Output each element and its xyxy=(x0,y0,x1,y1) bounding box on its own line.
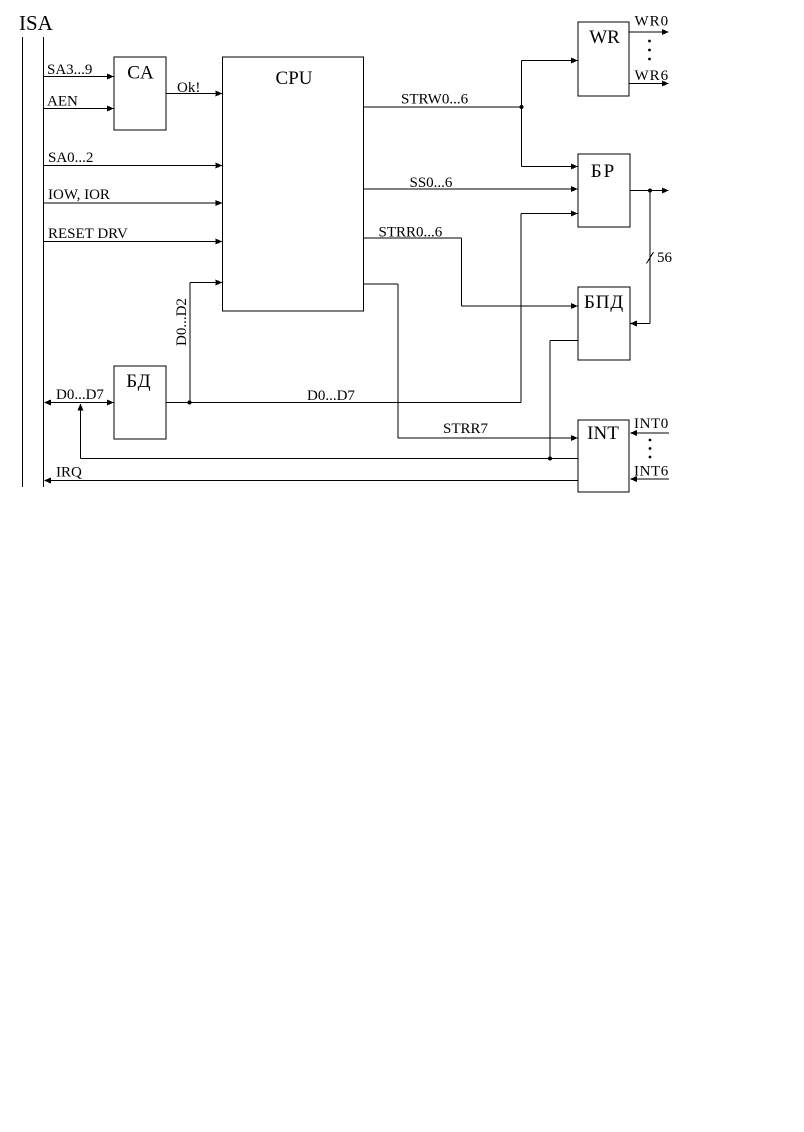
node junction dot on D0...D7 at D0...D2 riser xyxy=(188,401,192,405)
svg-text:SA3...9: SA3...9 xyxy=(47,62,92,78)
svg-text:STRR7: STRR7 xyxy=(443,421,489,437)
svg-text:WR: WR xyxy=(589,27,620,48)
svg-text:Ok!: Ok! xyxy=(177,80,200,96)
svg-text:D0...D2: D0...D2 xyxy=(174,298,190,346)
wire RESET DRV from bus to CPU xyxy=(44,226,223,245)
wire БР output with arrow xyxy=(630,188,669,194)
wire SS0...6 from CPU to БР xyxy=(364,175,579,192)
wire D0...D7 between bus and БД (bidirectional) xyxy=(44,387,114,406)
wire SA0...2 from bus to CPU xyxy=(44,150,223,169)
svg-text:IOW, IOR: IOW, IOR xyxy=(48,187,110,203)
svg-text:D0...D7: D0...D7 xyxy=(56,387,104,403)
svg-text:CPU: CPU xyxy=(276,68,313,89)
svg-text:D0...D7: D0...D7 xyxy=(307,388,355,404)
svg-text:INT0: INT0 xyxy=(634,416,669,432)
wire shared D0...D7 branch to БПД and INT xyxy=(78,341,579,459)
wire INT0 input xyxy=(630,416,669,436)
block БР xyxy=(578,154,630,227)
wire AEN from bus to CA xyxy=(44,94,115,112)
wire D0...D7 from БД to riser at БР xyxy=(166,388,521,404)
block CPU xyxy=(223,57,364,311)
node junction dot on БР output xyxy=(648,189,652,193)
svg-text:INT6: INT6 xyxy=(634,464,669,480)
wire WR6 output xyxy=(629,68,669,87)
block INT xyxy=(578,420,629,492)
wire D0...D7 riser up to БР third input xyxy=(521,211,578,403)
svg-text:IRQ: IRQ xyxy=(56,465,82,481)
wire Ok! from CA to CPU xyxy=(166,80,223,97)
block БПД xyxy=(578,287,630,360)
wire riser from STRW junction to WR and БР xyxy=(522,58,579,170)
wire WR0 output xyxy=(629,14,669,36)
svg-text:56: 56 xyxy=(657,250,673,266)
svg-text:SA0...2: SA0...2 xyxy=(48,150,93,166)
node bus width slash mark xyxy=(647,252,654,264)
wire ISA bus vertical line 2 xyxy=(43,37,45,487)
svg-text:CA: CA xyxy=(127,63,154,84)
wire INT6 input xyxy=(630,464,669,483)
svg-text:AEN: AEN xyxy=(47,94,78,110)
svg-text:БПД: БПД xyxy=(584,292,624,313)
block CA xyxy=(114,57,166,130)
svg-text:STRW0...6: STRW0...6 xyxy=(401,92,469,108)
svg-text:WR6: WR6 xyxy=(635,68,670,84)
wire ISA bus vertical line 1 xyxy=(22,37,24,487)
svg-text:БД: БД xyxy=(126,371,152,392)
node ellipsis dots between WR0 and WR6 xyxy=(648,40,651,61)
wire STRW0...6 from CPU to junction xyxy=(364,92,522,108)
wire IOW, IOR from bus to CPU xyxy=(44,187,223,206)
svg-text:STRR0...6: STRR0...6 xyxy=(379,225,443,241)
svg-text:ISA: ISA xyxy=(19,11,54,35)
svg-text:БР: БР xyxy=(591,161,616,182)
wire STRR0...6 from CPU to БПД xyxy=(364,225,579,310)
svg-text:WR0: WR0 xyxy=(635,14,670,30)
svg-text:INT: INT xyxy=(587,423,619,444)
block WR xyxy=(578,22,629,96)
node junction dot STRW xyxy=(520,105,524,109)
node junction dot on БПД branch xyxy=(548,457,552,461)
wire IRQ from INT to bus xyxy=(44,465,578,484)
wire STRR7 from CPU bottom right to INT xyxy=(364,284,579,441)
svg-text:SS0...6: SS0...6 xyxy=(410,175,453,191)
svg-text:RESET DRV: RESET DRV xyxy=(48,226,128,242)
node ellipsis dots between INT0 and INT6 xyxy=(649,439,652,459)
wire 56-bit bus from БР output down to БПД xyxy=(630,191,650,327)
wire SA3...9 from bus to CA xyxy=(44,62,115,80)
wire D0...D2 riser from D0...D7 line up into CPU xyxy=(190,280,223,403)
block БД xyxy=(114,366,166,439)
